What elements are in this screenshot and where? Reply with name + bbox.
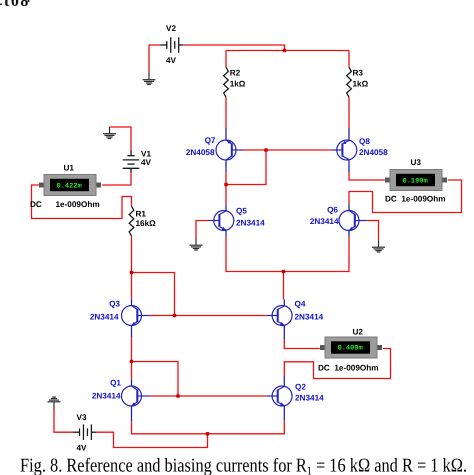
svg-text:Q7: Q7	[205, 136, 216, 145]
svg-text:0.409m: 0.409m	[338, 345, 363, 353]
svg-text:DC 1e-009Ohm: DC 1e-009Ohm	[318, 364, 379, 373]
svg-text:2N3414: 2N3414	[236, 219, 265, 228]
svg-text:Q8: Q8	[359, 137, 370, 146]
svg-text:2N3414: 2N3414	[90, 313, 119, 322]
svg-text:4V: 4V	[166, 56, 177, 65]
svg-text:Q1: Q1	[110, 379, 121, 388]
svg-text:Q6: Q6	[327, 206, 338, 215]
svg-text:0.199m: 0.199m	[403, 178, 428, 186]
svg-text:16kΩ: 16kΩ	[136, 219, 157, 228]
svg-text:2N3414: 2N3414	[92, 392, 121, 401]
svg-text:U1: U1	[64, 164, 75, 173]
svg-text:Q4: Q4	[295, 300, 306, 309]
svg-text:2N3414: 2N3414	[295, 394, 324, 403]
svg-text:Q3: Q3	[109, 300, 120, 309]
svg-text:Q5: Q5	[236, 207, 247, 216]
svg-text:4V: 4V	[77, 444, 88, 453]
svg-text:2N4058: 2N4058	[359, 148, 388, 157]
svg-text:2N4058: 2N4058	[186, 148, 215, 157]
svg-text:V3: V3	[77, 413, 87, 422]
svg-text:R3: R3	[353, 69, 364, 78]
svg-text:0.422m: 0.422m	[57, 183, 82, 191]
svg-text:R1: R1	[136, 210, 147, 219]
svg-text:Fig. 8. Reference and biasing: Fig. 8. Reference and biasing currents f…	[20, 456, 467, 475]
svg-text:V2: V2	[166, 24, 176, 33]
svg-text:2N3414: 2N3414	[310, 217, 339, 226]
svg-text:DC 1e-009Ohm: DC 1e-009Ohm	[385, 195, 446, 204]
svg-text:1kΩ: 1kΩ	[353, 80, 369, 89]
svg-text:Q2: Q2	[295, 383, 306, 392]
svg-text:DC 1e-009Ohm: DC 1e-009Ohm	[30, 200, 100, 209]
svg-text:U3: U3	[411, 158, 422, 167]
svg-text:4V: 4V	[141, 158, 152, 167]
svg-text:R2: R2	[230, 69, 241, 78]
svg-text:1kΩ: 1kΩ	[230, 80, 246, 89]
svg-text:2N3414: 2N3414	[295, 313, 324, 322]
svg-text:U2: U2	[353, 328, 364, 337]
